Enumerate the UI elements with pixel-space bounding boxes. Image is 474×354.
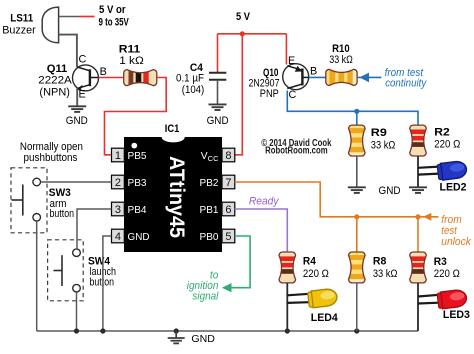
junction blue net xyxy=(354,109,359,114)
svg-text:GND: GND xyxy=(128,232,150,243)
svg-text:PB2: PB2 xyxy=(200,178,219,189)
svg-text:6: 6 xyxy=(225,204,231,216)
resistor R2 220 Ohm xyxy=(406,125,461,156)
svg-text:PB4: PB4 xyxy=(128,205,147,216)
resistor R8 33 kOhm xyxy=(345,252,398,284)
svg-text:unlock: unlock xyxy=(441,236,471,248)
svg-text:PB0: PB0 xyxy=(200,232,219,243)
svg-text:button: button xyxy=(50,208,75,220)
svg-text:1 kΩ: 1 kΩ xyxy=(119,55,144,67)
svg-text:C: C xyxy=(79,54,87,66)
junction bus/GND symbol xyxy=(174,328,179,333)
wire SW4 bottom to ground bus xyxy=(76,292,78,331)
svg-text:button: button xyxy=(90,276,115,288)
svg-text:(104): (104) xyxy=(182,84,205,96)
svg-text:8: 8 xyxy=(225,150,231,162)
resistor R10 33 kOhm xyxy=(326,43,360,90)
svg-text:B: B xyxy=(310,65,317,77)
svg-text:R11: R11 xyxy=(119,43,141,55)
svg-text:9 to 35V: 9 to 35V xyxy=(99,17,130,29)
svg-text:B: B xyxy=(100,66,107,78)
wire Q11 base to R11 (red) xyxy=(98,77,124,79)
pin 4 box xyxy=(112,229,125,243)
svg-text:GND: GND xyxy=(379,185,401,197)
svg-text:R2: R2 xyxy=(434,126,450,138)
capacitor C4 0.1uF xyxy=(176,62,226,104)
svg-text:1: 1 xyxy=(115,150,121,162)
svg-text:220 Ω: 220 Ω xyxy=(434,138,460,150)
svg-text:IC1: IC1 xyxy=(165,123,180,135)
svg-text:R4: R4 xyxy=(303,255,317,267)
wire 5V to Q10 emitter xyxy=(285,34,287,65)
node Ready (purple) and wire pin6 to R4 xyxy=(235,196,288,252)
pin 5 box xyxy=(222,229,235,243)
wire Q10 base to R10 (blue) xyxy=(309,76,326,78)
svg-text:33 kΩ: 33 kΩ xyxy=(373,268,398,280)
IC body xyxy=(124,137,222,252)
svg-text:signal: signal xyxy=(192,291,218,303)
svg-text:0.1 µF: 0.1 µF xyxy=(176,72,204,84)
svg-text:continuity: continuity xyxy=(385,78,427,90)
node 5V xyxy=(236,11,251,37)
svg-text:E: E xyxy=(79,89,86,101)
svg-text:Q11: Q11 xyxy=(47,63,68,75)
switch SW4 (launch button) xyxy=(48,240,116,301)
svg-text:33 kΩ: 33 kΩ xyxy=(371,139,396,151)
switch SW3 (arm button) xyxy=(11,168,74,233)
wire orange branch to R8 xyxy=(356,217,358,252)
pin 7 box xyxy=(222,175,235,189)
pin 1 box xyxy=(112,148,125,162)
svg-text:R3: R3 xyxy=(434,256,447,268)
svg-text:GND: GND xyxy=(66,115,88,127)
node to ignition signal (green) / wire pin5 xyxy=(187,236,250,303)
svg-text:PB5: PB5 xyxy=(128,151,147,162)
ground (Q11 emitter) xyxy=(66,106,88,127)
ground bus wire xyxy=(37,330,418,332)
svg-text:4: 4 xyxy=(115,231,121,243)
wire 5V to C4 xyxy=(217,34,219,73)
junction orange/R3 xyxy=(415,214,420,219)
svg-text:ATtiny45: ATtiny45 xyxy=(165,156,188,238)
transistor Q11 2222A NPN xyxy=(38,54,107,101)
wire R3/LED3 to ground bus xyxy=(417,283,419,331)
wire IC pin 3 to SW4 top xyxy=(77,209,112,249)
svg-text:LS11: LS11 xyxy=(10,12,33,24)
svg-text:C: C xyxy=(289,89,297,101)
wire Q11 emitter to ground xyxy=(76,89,78,107)
svg-text:PB1: PB1 xyxy=(200,205,219,216)
text: normally open pushbuttons xyxy=(20,141,83,164)
wire R4/LED4 to ground bus xyxy=(286,283,288,331)
svg-text:220 Ω: 220 Ω xyxy=(303,268,329,280)
svg-text:LED2: LED2 xyxy=(440,181,467,193)
svg-text:R8: R8 xyxy=(373,255,387,267)
svg-text:RobotRoom.com: RobotRoom.com xyxy=(265,146,328,157)
node from test continuity (blue arrow + label) xyxy=(357,67,427,90)
wire 5V to IC pin 8 (red) xyxy=(235,34,243,155)
LED4 (yellow) xyxy=(307,288,338,324)
wire R11 to IC pin 1 (red) xyxy=(105,78,167,155)
svg-text:LED4: LED4 xyxy=(311,312,339,324)
pin 8 box xyxy=(222,148,235,162)
node from test unlock (orange arrow + label) xyxy=(420,213,471,248)
svg-text:LED3: LED3 xyxy=(443,309,470,321)
wire LED2 anode lead xyxy=(418,167,439,168)
svg-text:2222A: 2222A xyxy=(38,75,72,87)
ground (R9) xyxy=(348,187,366,193)
svg-text:3: 3 xyxy=(115,204,121,216)
junction orange/R8 xyxy=(354,214,359,219)
wire LED3 anode lead xyxy=(418,295,439,297)
ground (bottom bus) xyxy=(168,331,215,345)
wire orange branch to R3 xyxy=(417,217,419,252)
pin1 marker dot xyxy=(131,143,137,149)
svg-text:pushbuttons: pushbuttons xyxy=(24,152,79,164)
wire buzzer top lead xyxy=(59,16,79,18)
node 5V / 9-35V supply xyxy=(79,4,129,29)
buzzer LS11 xyxy=(2,7,58,43)
svg-text:PB3: PB3 xyxy=(128,178,147,189)
resistor R11 1 kOhm xyxy=(119,43,157,89)
wire LED4 anode lead xyxy=(287,294,309,296)
wire LED2 cathode lead xyxy=(418,174,439,175)
svg-text:E: E xyxy=(288,55,295,67)
resistor R9 33 kOhm xyxy=(345,125,396,157)
ground (LED2) xyxy=(409,187,427,193)
svg-text:33 kΩ: 33 kΩ xyxy=(329,54,353,66)
svg-text:2: 2 xyxy=(115,177,121,189)
notch xyxy=(162,137,185,142)
svg-text:5: 5 xyxy=(225,231,231,243)
wire LED3 cathode lead xyxy=(418,302,439,305)
junction R4-LED4/bus xyxy=(285,328,290,333)
wire blue branch to R9 xyxy=(356,111,358,125)
svg-text:5 V or: 5 V or xyxy=(99,4,126,16)
wire SW3 to IC pin 2 xyxy=(41,181,112,183)
svg-text:GND: GND xyxy=(207,115,229,127)
wire pin7 orange net (from test unlock) xyxy=(235,182,418,217)
transistor Q10 2N2907 PNP xyxy=(249,55,318,101)
pin 3 box xyxy=(112,202,125,216)
wire 5V rail xyxy=(218,33,287,35)
svg-text:(NPN): (NPN) xyxy=(39,87,70,99)
svg-text:5 V: 5 V xyxy=(236,11,251,23)
pin 6 box xyxy=(222,202,235,216)
LED3 (red) xyxy=(437,289,470,321)
wire R2 to LED2 / ground xyxy=(417,156,419,187)
svg-text:Buzzer: Buzzer xyxy=(2,24,36,36)
svg-text:Ready: Ready xyxy=(249,196,280,208)
pin 2 box xyxy=(112,175,125,189)
svg-text:GND: GND xyxy=(191,334,215,345)
text copyright xyxy=(261,138,331,157)
wire IC pin 4 to ground bus xyxy=(103,236,112,331)
wire R9 to ground xyxy=(356,156,358,187)
junction SW4/bus xyxy=(74,328,79,333)
junction pin4/bus xyxy=(100,328,105,333)
resistor R3 220 Ohm xyxy=(406,252,460,283)
IC1 ATtiny45 xyxy=(112,123,235,252)
resistor R4 220 Ohm xyxy=(275,252,329,283)
wire buzzer bottom lead to Q11 collector xyxy=(59,35,77,67)
svg-text:220 Ω: 220 Ω xyxy=(434,268,460,280)
wire LED4 cathode lead xyxy=(287,301,309,304)
wire Q10 collector (blue net) xyxy=(287,91,418,126)
LED2 (blue) xyxy=(437,160,467,193)
junction R8/bus xyxy=(354,328,359,333)
wire R8 to ground bus xyxy=(356,283,358,331)
svg-text:7: 7 xyxy=(225,177,231,189)
svg-text:PNP: PNP xyxy=(260,88,279,100)
ground (C4) xyxy=(207,104,229,127)
wire SW3 bottom to ground bus xyxy=(36,221,38,331)
svg-text:R9: R9 xyxy=(371,127,387,139)
